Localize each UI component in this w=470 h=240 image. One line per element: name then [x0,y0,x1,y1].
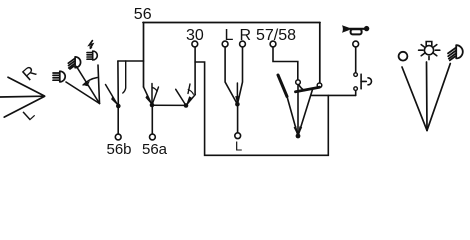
bridge link [299,85,305,91]
parking contact circle [399,52,408,61]
wire 56 right drop [319,23,321,83]
lights-on bulb symbol [419,42,440,60]
svg-text:L: L [20,106,38,125]
horn button contact bottom [354,87,358,91]
svg-text:56: 56 [134,6,152,23]
svg-text:56b: 56b [107,141,132,158]
high beam lamp icon left [53,71,65,82]
wire rail [118,60,144,62]
node 56b junction [116,104,121,109]
wire feed 56b [117,61,119,106]
arm middle [297,85,299,136]
arrowhead lever [294,126,298,136]
wire [66,82,100,104]
terminal L [222,41,228,47]
horn bell [342,25,349,33]
wire [8,77,45,96]
bus 56 [143,22,320,24]
contact stub middle [151,84,153,106]
flash contact stub [188,84,190,94]
contact bridge bar [296,87,320,92]
headlight dimmer lever symbol [66,65,100,104]
arc arrow [83,78,97,86]
flash contact arm [176,89,186,105]
horn mouthpiece [364,26,369,31]
contact stub [123,61,126,93]
wiper arm into node 56b [106,85,119,107]
turn wiper stub [236,83,238,104]
node 56a junction [150,103,155,108]
dipped beam lamp icon right [448,45,463,60]
node flash junction [184,103,189,108]
arrowhead wiper 30 [186,96,192,105]
node turn junction [235,102,240,107]
terminal horn [353,41,359,47]
wire to 56b terminal [117,106,119,133]
horn symbol [342,25,369,34]
wire [402,67,427,131]
arrowhead wiper 56a [145,95,152,105]
svg-text:R: R [240,27,252,44]
wire [0,95,45,98]
wire L [225,48,237,105]
wire to L terminal bottom [237,104,239,132]
contact 57/58 side [296,80,301,85]
wire 56 left drop [143,23,145,88]
horn button contact top [354,73,358,77]
terminal 30 [192,41,198,47]
horn tube [349,28,365,30]
lightning bolt [89,41,92,48]
wire [77,67,100,104]
svg-text:L: L [225,27,234,44]
wiper arm into node 56a [144,87,153,105]
horn pushbutton actuator [361,74,371,89]
wiper from 30 [186,95,195,106]
dip-flash lever thick [278,75,287,97]
wire to 56a terminal [151,105,153,133]
parking lever symbol [402,62,450,131]
arrowhead turn wiper [235,96,239,104]
flash lamp icon right [87,51,97,60]
terminal 56b [115,134,121,140]
travel arc [153,88,158,92]
wire stub [355,91,357,96]
wire [427,64,450,131]
dip-flash lever arm [287,97,298,137]
wire [4,96,44,117]
terminal R [240,41,246,47]
arrowhead of bolt [90,46,93,50]
node dip junction [296,134,301,139]
svg-text:R: R [19,62,41,84]
wire [98,65,100,104]
arrowhead on arc [83,81,90,86]
wire R [237,48,242,105]
dipped beam lamp icon middle [68,57,80,69]
svg-text:56a: 56a [142,141,168,158]
svg-text:L: L [235,139,242,154]
terminal 56a [150,134,156,140]
wire [426,62,429,131]
wire 30 jog [195,62,328,155]
svg-text:30: 30 [186,27,204,44]
wire horn feed [312,94,356,96]
horn loop [351,29,362,34]
arrowhead wiper 56b [111,97,118,106]
travel arc [188,90,193,95]
svg-text:57/58: 57/58 [256,27,296,44]
wire horn [355,48,357,73]
contact 56 side [317,83,322,88]
arrowhead arm right [298,126,302,136]
wire 30 riser [194,48,196,95]
wire 56a to flash node [152,104,186,106]
contact stub right [152,87,159,105]
turn signal lever symbol [0,77,45,117]
terminal L bottom [235,133,241,139]
terminal 57/58 [270,41,276,47]
wire 57/58 [273,48,298,80]
arm right [298,90,313,137]
